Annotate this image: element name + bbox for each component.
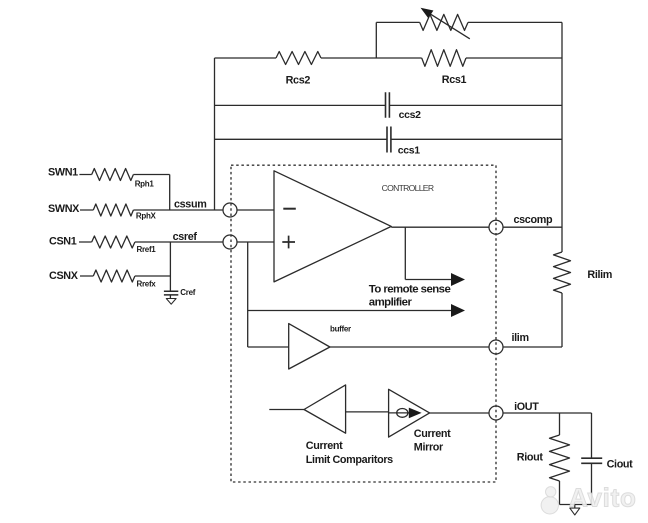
capacitor Cref [164, 291, 178, 295]
node ilim [489, 340, 503, 354]
svg-text:buffer: buffer [330, 324, 351, 333]
node iOUT [489, 406, 503, 420]
wire: comparator input [269, 409, 304, 411]
wire: right trunk vertical [561, 22, 563, 252]
wire: Rilim bottom to ilim row [561, 293, 563, 347]
svg-text:amplifier: amplifier [369, 297, 413, 309]
wire: comparator to mirror [346, 411, 389, 413]
buffer amplifier [289, 324, 330, 369]
svg-text:Rcs1: Rcs1 [442, 74, 467, 86]
svg-text:To remote sense: To remote sense [369, 283, 451, 295]
node csref [223, 235, 237, 249]
wire: Rcs row [215, 57, 563, 59]
svg-text:CONTROLLER: CONTROLLER [382, 183, 434, 193]
watermark Avito logo circles [541, 487, 558, 514]
arrow to remote sense amplifier (upper) [451, 273, 465, 286]
svg-text:RphX: RphX [136, 212, 157, 221]
resistor Rrefx [93, 270, 135, 282]
wire: csref down to Cref [169, 242, 171, 298]
current mirror amplifier [389, 389, 430, 437]
wire: variable-resistor top row [376, 22, 562, 58]
variable resistor (parallel with Rcs1) [420, 14, 468, 30]
arrow to remote sense amplifier (lower) [451, 304, 465, 317]
svg-text:Avito: Avito [569, 483, 637, 513]
svg-text:Rilim: Rilim [587, 269, 612, 281]
svg-text:cscomp: cscomp [514, 214, 553, 226]
svg-text:Riout: Riout [517, 452, 544, 464]
resistor RphX [93, 204, 133, 216]
svg-text:Rcs2: Rcs2 [286, 75, 311, 87]
capacitor ccs2 [386, 92, 390, 118]
svg-text:Rph1: Rph1 [135, 180, 155, 189]
svg-text:ccs1: ccs1 [398, 144, 420, 156]
wire: output branch to remote sense arrow [405, 227, 452, 279]
svg-text:Rref1: Rref1 [137, 245, 157, 254]
capacitor Ciout [591, 413, 593, 505]
wire: bottom tie [560, 504, 592, 506]
node cssum [223, 203, 237, 217]
svg-text:CSN1: CSN1 [49, 235, 77, 247]
resistor Rilim [554, 252, 571, 293]
wire CSNX input [80, 275, 170, 277]
wire SWN1 input [79, 175, 169, 211]
svg-text:iOUT: iOUT [514, 401, 539, 413]
svg-text:Limit Comparitors: Limit Comparitors [306, 454, 393, 466]
resistor Rph1 [92, 169, 134, 181]
op-amp U1 (controller error amplifier) [274, 171, 391, 282]
svg-text:Ciout: Ciout [607, 458, 634, 470]
wire SWNX / cssum row [80, 209, 274, 211]
controller dashed box [231, 165, 496, 482]
wire: left trunk vertical [214, 58, 216, 210]
node cscomp [489, 220, 503, 234]
resistor Riout [559, 413, 561, 435]
wire: csref branch arrow line (lower) [248, 310, 452, 312]
svg-text:Current: Current [414, 428, 451, 440]
svg-text:csref: csref [173, 231, 198, 243]
wire: op-amp output / cscomp row [391, 226, 562, 228]
wire: ccs2 row [215, 104, 563, 106]
wire CSN1 / csref row [79, 241, 274, 243]
svg-text:Current: Current [306, 440, 343, 452]
svg-text:SWNX: SWNX [48, 203, 80, 215]
wire: ccs1 row [215, 138, 563, 140]
svg-text:CSNX: CSNX [49, 270, 79, 282]
svg-text:ccs2: ccs2 [399, 109, 421, 121]
svg-text:ilim: ilim [512, 332, 529, 344]
wire: buffer output / ilim row [330, 346, 562, 348]
ground (Cref) [166, 299, 176, 305]
comparator (current limit) [304, 385, 346, 433]
capacitor ccs1 [387, 127, 391, 153]
svg-text:cssum: cssum [174, 198, 206, 210]
svg-text:Cref: Cref [180, 288, 195, 297]
svg-text:Mirror: Mirror [414, 442, 444, 454]
resistor Rcs1 [422, 50, 466, 67]
ground (output) [574, 505, 576, 508]
svg-text:SWN1: SWN1 [48, 166, 78, 178]
wire: csref down to buffer [248, 242, 289, 347]
svg-text:Rrefx: Rrefx [137, 280, 157, 289]
resistor Rref1 [92, 236, 135, 248]
wire: mirror output / iOUT row [430, 412, 592, 414]
resistor Rcs2 [276, 52, 321, 65]
